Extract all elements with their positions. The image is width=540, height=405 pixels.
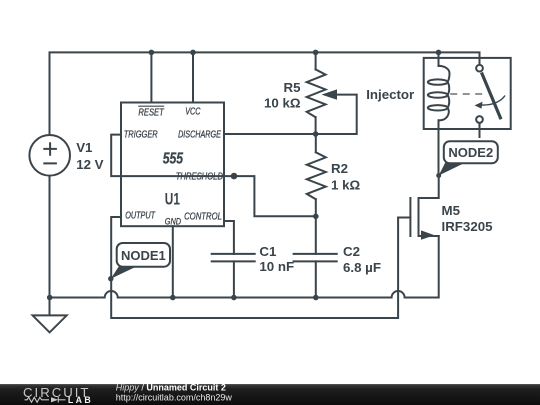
svg-text:DISCHARGE: DISCHARGE xyxy=(178,130,221,141)
svg-text:TRIGGER: TRIGGER xyxy=(124,130,158,141)
svg-text:10 kΩ: 10 kΩ xyxy=(264,96,301,111)
svg-text:VCC: VCC xyxy=(185,107,201,118)
svg-text:Hippy / Unnamed Circuit 2: Hippy / Unnamed Circuit 2 xyxy=(116,383,226,393)
svg-text:NODE2: NODE2 xyxy=(448,145,493,160)
svg-text:NODE1: NODE1 xyxy=(121,248,166,263)
svg-text:M5: M5 xyxy=(442,203,461,218)
svg-text:C1: C1 xyxy=(259,244,277,259)
svg-text:RESET: RESET xyxy=(138,107,164,118)
svg-text:CONTROL: CONTROL xyxy=(184,212,222,223)
svg-text:U1: U1 xyxy=(165,190,180,208)
svg-text:R5: R5 xyxy=(284,80,302,95)
svg-text:LAB: LAB xyxy=(68,395,93,405)
svg-text:GND: GND xyxy=(165,217,182,227)
svg-text:IRF3205: IRF3205 xyxy=(442,219,494,234)
svg-text:C2: C2 xyxy=(343,244,360,259)
svg-text:Injector: Injector xyxy=(366,87,414,102)
svg-text:http://circuitlab.com/ch8n29w: http://circuitlab.com/ch8n29w xyxy=(116,393,233,403)
svg-text:V1: V1 xyxy=(76,140,93,155)
svg-text:555: 555 xyxy=(163,151,184,168)
svg-text:12 V: 12 V xyxy=(76,157,103,172)
svg-text:10 nF: 10 nF xyxy=(259,259,294,274)
svg-text:OUTPUT: OUTPUT xyxy=(125,211,156,222)
svg-text:6.8 µF: 6.8 µF xyxy=(343,260,381,275)
svg-text:R2: R2 xyxy=(331,161,348,176)
svg-text:1 kΩ: 1 kΩ xyxy=(331,178,360,193)
